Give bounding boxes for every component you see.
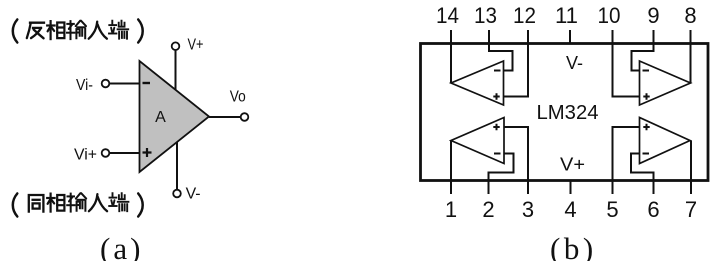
wire op-amp output to Vo terminal (209, 116, 241, 118)
op-amp A body (140, 61, 210, 172)
pin 11 lead (V-) (569, 30, 571, 44)
svg-text:V-: V- (186, 186, 201, 203)
wire V+ to op-amp top (175, 50, 177, 90)
svg-text:13: 13 (474, 3, 497, 28)
pin 12 lead and wire to U1D non-inverting input (504, 30, 529, 97)
svg-text:5: 5 (606, 197, 618, 222)
pin 7 lead and wire to U1B output (690, 141, 692, 195)
terminal V+ (positive supply) (172, 42, 180, 50)
svg-text:7: 7 (685, 197, 697, 222)
wire V- to op-amp bottom (176, 142, 178, 190)
svg-text:11: 11 (555, 3, 578, 28)
op-amp A non-inverting input marker + (143, 148, 152, 157)
svg-text:6: 6 (647, 197, 659, 222)
pin 6 lead and wire to U1B inverting input (631, 154, 654, 195)
svg-text:9: 9 (647, 3, 659, 28)
op-amp U1D triangle (top-left) (451, 61, 504, 105)
wire Vi+ to op-amp non-inverting input (110, 152, 140, 154)
svg-text:(a): (a) (100, 231, 143, 261)
terminal Vo (241, 113, 249, 121)
svg-text:A: A (155, 109, 166, 126)
svg-text:3: 3 (522, 197, 534, 222)
svg-text:8: 8 (684, 3, 696, 28)
op-amp U1A minus marker (494, 153, 501, 155)
op-amp U1C plus marker (643, 93, 649, 99)
op-amp U1C minus marker (643, 70, 650, 72)
pin 10 lead and wire to U1C non-inverting input (613, 30, 640, 97)
wire Vi- to op-amp inverting input (110, 83, 140, 85)
svg-text:12: 12 (513, 3, 536, 28)
op-amp U1C triangle (top-right) (640, 61, 691, 105)
svg-text:1: 1 (445, 197, 457, 222)
svg-text:14: 14 (436, 3, 459, 28)
svg-text:Vi+: Vi+ (74, 147, 97, 164)
op-amp U1D minus marker (494, 70, 501, 72)
svg-text:V+: V+ (188, 37, 204, 54)
pin 5 lead and wire to U1B non-inverting input (613, 127, 640, 194)
op-amp U1B minus marker (643, 153, 650, 155)
op-amp U1A plus marker (493, 124, 499, 130)
pin 8 lead and wire to U1C output (690, 30, 692, 83)
pin 1 lead and wire to U1A output (450, 141, 452, 195)
op-amp U1B plus marker (643, 124, 649, 130)
svg-text:4: 4 (564, 197, 576, 222)
svg-text:Vi-: Vi- (76, 77, 93, 94)
label (反相输入端) inverting input terminal (13, 20, 143, 43)
op-amp U1B triangle (bottom-right) (640, 118, 691, 164)
op-amp U1D plus marker (493, 93, 499, 99)
pin 13 lead and wire to U1D inverting input (489, 30, 513, 71)
svg-text:Vo: Vo (230, 89, 246, 106)
pin 3 lead and wire to U1A non-inverting input (504, 127, 528, 194)
op-amp U1A triangle (bottom-left) (451, 118, 504, 164)
terminal Vi+ (102, 149, 110, 157)
terminal Vi- (102, 80, 110, 88)
pin 9 lead and wire to U1C inverting input (632, 30, 654, 71)
svg-text:(b): (b) (550, 231, 597, 261)
pin 4 lead (V+) (570, 181, 572, 195)
terminal V- (negative supply) (173, 190, 181, 198)
op-amp A inverting input marker - (143, 82, 151, 84)
svg-text:2: 2 (482, 197, 494, 222)
svg-text:LM324: LM324 (537, 101, 599, 124)
IC LM324 package body (421, 44, 709, 181)
svg-text:10: 10 (598, 3, 621, 28)
svg-text:V-: V- (566, 53, 583, 73)
label (同相输入端) non-inverting input terminal (13, 193, 143, 216)
pin 2 lead and wire to U1A inverting input (489, 154, 514, 195)
pin 14 lead and wire to U1D output (450, 30, 452, 83)
svg-text:V+: V+ (560, 155, 585, 175)
